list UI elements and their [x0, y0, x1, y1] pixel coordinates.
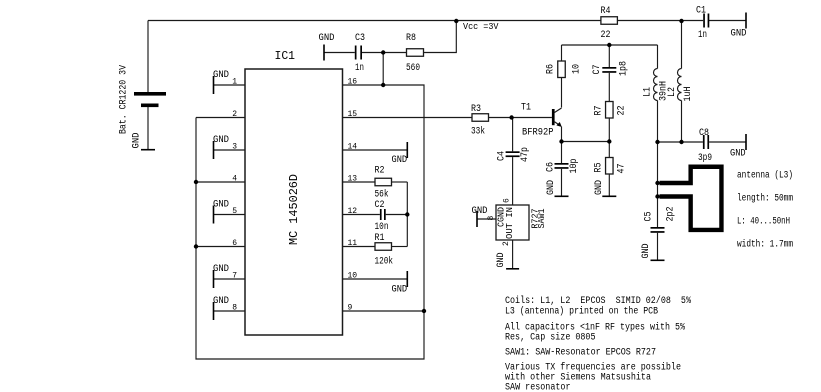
svg-text:11: 11 — [348, 239, 358, 248]
wire L2 top from Vcc rail — [681, 21, 683, 69]
svg-text:C8: C8 — [699, 128, 709, 139]
wire pin3 gnd — [214, 149, 246, 151]
svg-text:R2: R2 — [375, 166, 385, 177]
wire antenna column — [657, 142, 659, 227]
inductor L1 39nH — [643, 69, 670, 102]
svg-text:R1: R1 — [375, 233, 385, 244]
wire RC column vertical — [406, 182, 408, 247]
wire R3 to transistor base — [489, 117, 552, 119]
resistor R7 22 — [594, 102, 628, 119]
svg-text:1p8: 1p8 — [619, 61, 630, 76]
wire pin14 to gnd — [343, 149, 408, 151]
svg-text:GND: GND — [731, 29, 747, 40]
wire pin16 to right loop corner and down to bottom loop — [196, 85, 424, 359]
svg-text:Res, Cap size 0805: Res, Cap size 0805 — [505, 332, 596, 344]
svg-text:2: 2 — [502, 241, 511, 246]
ground R5 — [594, 180, 616, 197]
svg-text:4: 4 — [232, 175, 237, 184]
antenna note text — [737, 170, 793, 251]
resistor R2 56k — [375, 166, 392, 201]
node junction antenna top — [655, 181, 659, 185]
ground pin3 — [213, 135, 229, 159]
ground C5 — [641, 244, 665, 262]
ground SAW pin8 — [472, 206, 488, 227]
svg-text:12: 12 — [348, 207, 358, 216]
capacitor C1 1n — [696, 6, 709, 42]
svg-text:length: 50mm: length: 50mm — [737, 193, 793, 205]
svg-text:GND: GND — [213, 135, 229, 146]
svg-text:47p: 47p — [520, 147, 531, 162]
svg-text:22: 22 — [617, 106, 628, 116]
svg-text:GND: GND — [213, 200, 229, 211]
svg-text:MC 145026D: MC 145026D — [288, 174, 301, 245]
ground pin10 — [392, 271, 409, 296]
ground pin7 — [213, 264, 229, 288]
wire R8 to C3 junction — [362, 52, 407, 54]
svg-text:22: 22 — [601, 30, 611, 41]
wire C6 branch — [561, 142, 563, 164]
node junction L2 top — [679, 19, 683, 23]
svg-text:SAW resonator: SAW resonator — [505, 383, 571, 392]
wire pin9 to loop — [343, 310, 425, 312]
svg-text:R7: R7 — [594, 106, 605, 116]
svg-text:SAW1: SAW1 — [537, 209, 547, 229]
wire R1 to right column — [392, 246, 408, 248]
svg-text:GND: GND — [213, 296, 229, 307]
svg-text:14: 14 — [348, 143, 358, 152]
note coils text — [505, 295, 691, 318]
svg-text:Vcc =3V: Vcc =3V — [463, 22, 499, 32]
svg-text:GND: GND — [319, 33, 335, 44]
wire emitter down — [561, 127, 563, 142]
resistor R6 10 — [546, 61, 583, 78]
wire battery top drop — [147, 21, 149, 93]
svg-text:SAW1: SAW-Resonator EPCOS R727: SAW1: SAW-Resonator EPCOS R727 — [505, 348, 656, 359]
ground at C3 — [319, 33, 335, 61]
node junction L1 bottom — [655, 140, 659, 144]
wire emitter rail — [562, 141, 610, 143]
wire R6 branch — [561, 45, 563, 61]
svg-text:GND: GND — [730, 149, 746, 160]
svg-text:1n: 1n — [355, 63, 364, 74]
wire pin2 — [196, 117, 245, 119]
wire pin15 to R3 — [343, 117, 473, 119]
svg-text:GND: GND — [392, 285, 408, 296]
svg-text:L3 (antenna) printed on the PC: L3 (antenna) printed on the PCB — [505, 306, 658, 318]
ground C6 — [546, 180, 569, 197]
svg-text:33k: 33k — [471, 126, 485, 138]
wire SAW pin 2 to gnd — [512, 240, 514, 268]
svg-text:3: 3 — [232, 143, 237, 152]
antenna L3 printed loop — [660, 167, 722, 230]
wire pin11 to R1 — [343, 246, 376, 248]
wire pin4 — [196, 181, 245, 183]
IC U1 MC145026D body — [245, 49, 343, 335]
capacitor C3 1n — [355, 33, 365, 74]
wire C7 branch — [608, 45, 610, 67]
node junction C2 right — [405, 212, 409, 216]
resistor R5 47 — [594, 158, 628, 175]
inductor L2 1uH — [667, 69, 694, 102]
wire pin7 gnd — [214, 278, 246, 280]
wire pin12 to C2 — [343, 214, 380, 216]
svg-text:1n: 1n — [698, 30, 707, 41]
svg-text:1: 1 — [232, 78, 237, 87]
svg-text:OUT IN: OUT IN — [505, 207, 515, 239]
resistor R4 22 — [601, 6, 618, 41]
wire C5 to gnd — [657, 233, 659, 260]
svg-text:C3: C3 — [355, 33, 365, 44]
svg-text:GND: GND — [546, 180, 557, 195]
resistor R8 560 — [406, 33, 424, 74]
wire pin6 — [196, 246, 245, 248]
svg-text:560: 560 — [406, 63, 420, 74]
node junction collector rail / C7 — [607, 43, 611, 47]
svg-text:GND: GND — [472, 206, 488, 217]
wire L1 bottom — [657, 101, 659, 143]
svg-text:GND: GND — [132, 133, 143, 149]
svg-text:L2: L2 — [667, 87, 678, 97]
ground pin14 — [392, 142, 409, 166]
svg-text:C5: C5 — [644, 212, 655, 222]
wire base junction down to C4 — [512, 118, 514, 152]
wire C6 to gnd — [561, 169, 563, 196]
wire pin1 gnd — [214, 84, 246, 86]
wire junction drop C3 row to pin16 — [382, 53, 384, 86]
wire top rail C1 to GND — [709, 20, 746, 22]
svg-text:BFR92P: BFR92P — [522, 127, 554, 138]
wire C3 to GND bar — [324, 52, 355, 54]
svg-text:13: 13 — [348, 175, 358, 184]
svg-text:8: 8 — [487, 216, 496, 221]
SAW resonator SAW1 R727 box — [487, 198, 547, 246]
svg-text:7: 7 — [232, 272, 237, 281]
svg-text:R3: R3 — [471, 104, 481, 115]
wire R2 to right column — [392, 181, 408, 183]
node junction base/C4 — [509, 115, 513, 119]
svg-text:width: 1.7mm: width: 1.7mm — [737, 239, 793, 251]
node junction emitter rail right — [607, 139, 611, 143]
wire R5 to gnd — [608, 174, 610, 196]
svg-text:GND: GND — [213, 264, 229, 275]
wire Vcc drop to R8 row — [424, 21, 457, 53]
wire pin13 to R2 — [343, 181, 376, 183]
svg-text:1uH: 1uH — [683, 87, 694, 102]
wire R6 to collector — [561, 78, 563, 108]
wire pin8 gnd — [214, 310, 246, 312]
capacitor C5 2p2 — [644, 207, 677, 233]
svg-text:3p9: 3p9 — [698, 153, 712, 164]
wire pin10 to gnd — [343, 278, 408, 280]
svg-text:GND: GND — [496, 253, 507, 268]
svg-text:10n: 10n — [375, 222, 389, 233]
svg-text:R6: R6 — [546, 64, 557, 74]
ground pin8 — [213, 296, 229, 320]
svg-text:C2: C2 — [375, 200, 385, 211]
node junction emitter rail left — [559, 139, 563, 143]
wire R7 to emitter rail — [608, 118, 610, 142]
svg-text:GND: GND — [641, 244, 652, 259]
wire C4 to SAW pin 6 — [512, 157, 514, 205]
capacitor C7 1p8 — [592, 61, 630, 76]
svg-text:10: 10 — [572, 64, 583, 74]
svg-text:L1: L1 — [643, 87, 654, 97]
svg-text:47: 47 — [617, 164, 628, 174]
svg-text:2p2: 2p2 — [666, 207, 677, 222]
battery BAT CR1220 — [119, 65, 167, 134]
capacitor C8 3p9 — [698, 128, 712, 164]
wire tank rail to C8 — [658, 141, 703, 143]
wire collector rail — [562, 44, 658, 46]
wire C8 to gnd — [709, 141, 745, 143]
wire battery bottom to ground — [147, 107, 149, 150]
note capacitors text — [505, 322, 685, 344]
svg-text:10p: 10p — [569, 159, 580, 174]
node Vcc label — [454, 19, 499, 32]
wire Vcc top rail left (battery to C1) — [148, 20, 703, 22]
resistor R3 33k — [471, 104, 489, 138]
node junction L2 bottom — [679, 140, 683, 144]
svg-text:IC1: IC1 — [275, 49, 296, 63]
note SAW text — [505, 348, 656, 359]
svg-text:R5: R5 — [594, 163, 605, 173]
svg-text:L: 40...50nH: L: 40...50nH — [737, 217, 790, 228]
svg-text:15: 15 — [348, 110, 358, 119]
resistor R1 120k — [375, 233, 394, 268]
svg-text:10: 10 — [348, 272, 358, 281]
svg-text:56k: 56k — [375, 189, 389, 201]
svg-text:GND: GND — [392, 155, 408, 166]
ground battery — [132, 133, 156, 151]
wire C2 to right column — [386, 214, 408, 216]
svg-text:R4: R4 — [601, 6, 611, 17]
svg-text:GND: GND — [594, 180, 605, 195]
svg-text:C4: C4 — [497, 151, 508, 161]
svg-text:2: 2 — [232, 110, 237, 119]
wire pin5 gnd — [214, 214, 246, 216]
svg-text:T1: T1 — [521, 103, 531, 114]
svg-text:antenna (L3): antenna (L3) — [737, 170, 793, 182]
svg-text:120k: 120k — [375, 256, 394, 268]
transistor T1 BFR92P — [521, 103, 562, 139]
capacitor C2 10n — [375, 200, 389, 233]
svg-text:C7: C7 — [592, 65, 603, 75]
svg-text:6: 6 — [232, 239, 237, 248]
capacitor C4 47p — [497, 147, 532, 162]
svg-text:R8: R8 — [406, 33, 416, 44]
svg-text:C6: C6 — [546, 162, 557, 172]
node junction pin9 — [422, 309, 426, 313]
wire L2 bottom — [681, 101, 683, 143]
node junction pin6 — [194, 244, 198, 248]
wire C7 to R7 — [608, 73, 610, 102]
ground C8 — [730, 134, 747, 160]
svg-text:16: 16 — [348, 78, 358, 87]
ground pin5 — [213, 200, 229, 224]
svg-text:Bat. CR1220 3V: Bat. CR1220 3V — [119, 65, 130, 134]
ground SAW pin2 — [496, 253, 519, 270]
svg-text:9: 9 — [348, 304, 353, 313]
wire SAW pin 8 to gnd — [477, 218, 496, 220]
wire L1 top — [657, 45, 659, 69]
node junction C3/R8 top — [381, 50, 385, 54]
svg-text:GND: GND — [213, 70, 229, 81]
svg-text:6: 6 — [503, 198, 512, 203]
note frequencies text — [505, 362, 681, 392]
svg-text:8: 8 — [232, 304, 237, 313]
node junction pin4 — [194, 180, 198, 184]
capacitor C6 10p — [546, 159, 581, 174]
node junction antenna bottom — [655, 194, 659, 198]
node junction pin16 — [381, 83, 385, 87]
svg-text:5: 5 — [232, 207, 237, 216]
ground at C1 — [731, 13, 747, 40]
ground pin1 — [213, 70, 229, 94]
wire R5 branch — [608, 142, 610, 158]
svg-text:C1: C1 — [696, 6, 706, 17]
svg-text:Coils: L1, L2 EPCOS SIMID 02: Coils: L1, L2 EPCOS SIMID 02/08 5% — [505, 295, 691, 307]
